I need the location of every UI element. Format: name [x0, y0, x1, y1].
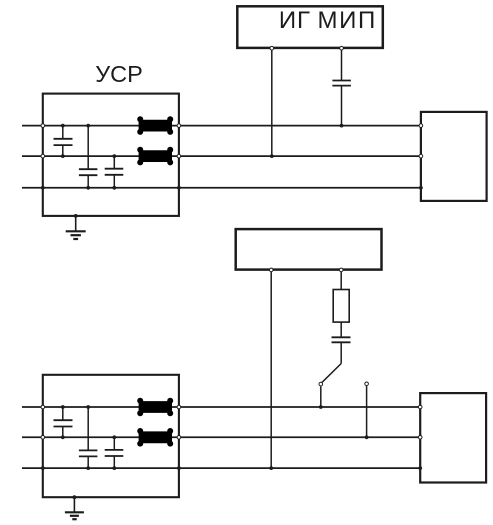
switch contact right	[365, 382, 369, 386]
wire: ИГ МИП left lead to L2	[271, 48, 273, 156]
capacitor C4 (ИГ МИП right lead to L1)	[332, 48, 351, 126]
svg-text:ИГМИП: ИГМИП	[279, 7, 377, 34]
capacitor C2' (L1'-L3')	[79, 407, 98, 468]
wire: bottom phase line L3	[22, 187, 421, 189]
capacitor C1' (L1'-L2')	[54, 407, 73, 437]
wire: generator right lead down to resistor	[340, 270, 342, 290]
ground (top circuit)	[66, 216, 86, 239]
wire: right contact to L2'	[366, 386, 368, 437]
wire: left contact to L1'	[320, 386, 322, 407]
capacitor C3' (L2'-L3')	[105, 437, 124, 468]
load box top right	[421, 112, 487, 201]
box suppression unit (bottom)	[43, 375, 179, 497]
wire: bottom circuit phase line L1'	[22, 406, 420, 408]
switch contact left	[319, 382, 323, 386]
choke (ferrite bead) on L1	[137, 116, 173, 135]
choke (ferrite bead) on L1'	[137, 398, 173, 417]
capacitor C5 (in generator lead)	[332, 337, 351, 363]
capacitor C2 (L1-L3, crossing L2)	[79, 126, 98, 188]
junction dots (top circuit)	[41, 124, 423, 218]
load box bottom right	[420, 393, 486, 482]
svg-text:УСР: УСР	[95, 61, 143, 87]
generator box (bottom, unlabeled)	[236, 229, 382, 270]
wire: generator left lead to L3'	[270, 270, 272, 469]
capacitor C3 (L2-L3)	[105, 156, 124, 188]
resistor R1	[333, 290, 349, 323]
choke (ferrite bead) on L2	[137, 147, 173, 166]
wire: bottom circuit phase line L2'	[22, 436, 420, 438]
open terminals (top circuit)	[41, 46, 423, 158]
ground (bottom circuit)	[65, 497, 84, 519]
generator box ИГ МИП	[237, 6, 382, 48]
wire: bottom circuit phase line L3'	[22, 467, 420, 469]
open terminals (bottom circuit)	[41, 268, 422, 439]
junction dots (bottom circuit)	[41, 405, 422, 499]
switch blade (diagonal)	[322, 364, 341, 383]
wire: top phase line L1	[22, 125, 421, 127]
wire: resistor to capacitor	[340, 322, 342, 337]
choke (ferrite bead) on L2'	[137, 428, 173, 447]
wire: middle phase line L2	[22, 155, 421, 157]
capacitor C1 (L1-L2)	[54, 126, 73, 157]
box УСР (surge suppression unit)	[43, 94, 179, 216]
